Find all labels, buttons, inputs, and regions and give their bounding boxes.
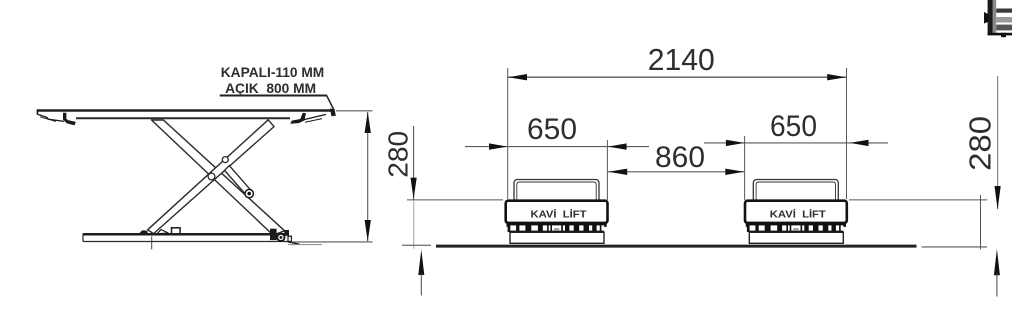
dimension 280 left bbox=[382, 126, 503, 296]
rubber pad bbox=[514, 180, 599, 204]
front view: floor line bbox=[436, 245, 987, 249]
side view: roller and brackets bbox=[270, 229, 291, 242]
svg-text:KAPALI-110 MM: KAPALI-110 MM bbox=[221, 64, 325, 80]
side view: left foot wedge bbox=[139, 230, 168, 250]
side view: left ramp flap bbox=[38, 113, 76, 126]
label underline leader bbox=[220, 96, 334, 111]
corner feet bbox=[507, 223, 517, 227]
side view height dimension: top extension line bbox=[336, 110, 373, 112]
toothed strip bbox=[508, 224, 605, 232]
svg-text:860: 860 bbox=[655, 141, 705, 174]
side view: platform bar bbox=[37, 110, 334, 119]
svg-text:280: 280 bbox=[382, 131, 413, 178]
side view: hydraulic cylinder bbox=[225, 166, 254, 198]
side view: scissor arm 2 (bottom-left to top-right) bbox=[148, 120, 274, 234]
dimension 2140 bbox=[508, 42, 847, 199]
svg-text:2140: 2140 bbox=[648, 42, 715, 77]
dimension 650 left bbox=[465, 113, 649, 200]
dimension 280 right bbox=[849, 76, 1001, 297]
side view: cylinder upper pin bbox=[222, 157, 228, 163]
corner image fragment top-right bbox=[984, 0, 1012, 37]
side view: center pivot pin bbox=[208, 173, 215, 180]
side view height dimension: bottom extension line bbox=[291, 241, 373, 243]
svg-text:280: 280 bbox=[963, 116, 997, 171]
svg-text:AÇIK 800 MM: AÇIK 800 MM bbox=[225, 80, 316, 96]
side view: base plate bbox=[83, 234, 289, 242]
dimension 650 right bbox=[704, 110, 888, 200]
front view: left platform bbox=[506, 180, 608, 244]
side view: base bracket post bbox=[172, 228, 181, 234]
platform body bbox=[506, 201, 608, 223]
svg-text:KAVİ LİFT: KAVİ LİFT bbox=[531, 207, 587, 220]
side view: scissor arm 1 (top-left to bottom-right) bbox=[152, 120, 285, 235]
front view: right platform (copy) bbox=[745, 180, 847, 244]
side view: ground wedge right of base bbox=[288, 242, 322, 245]
svg-text:650: 650 bbox=[527, 113, 577, 146]
svg-text:650: 650 bbox=[770, 110, 817, 143]
side view: right ramp flap bbox=[290, 109, 336, 124]
dimension 860 bbox=[608, 141, 745, 175]
side view height dimension: vertical line with arrows bbox=[365, 112, 371, 242]
lower base box bbox=[510, 232, 604, 243]
